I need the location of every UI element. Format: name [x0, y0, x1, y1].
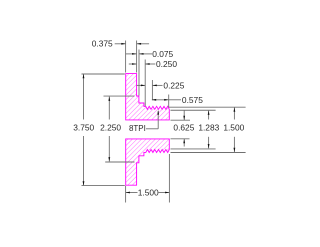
svg-text:0.575: 0.575	[182, 95, 203, 105]
svg-text:8TPI: 8TPI	[129, 124, 146, 133]
svg-text:1.283: 1.283	[198, 123, 219, 133]
svg-text:2.250: 2.250	[100, 123, 121, 133]
svg-text:0.250: 0.250	[156, 59, 177, 69]
svg-text:1.500: 1.500	[223, 123, 244, 133]
svg-text:0.625: 0.625	[173, 123, 194, 133]
svg-text:1.500: 1.500	[138, 188, 159, 198]
svg-text:0.225: 0.225	[163, 80, 184, 90]
svg-text:3.750: 3.750	[73, 123, 94, 133]
svg-text:0.075: 0.075	[152, 49, 173, 59]
svg-text:0.375: 0.375	[92, 39, 113, 49]
